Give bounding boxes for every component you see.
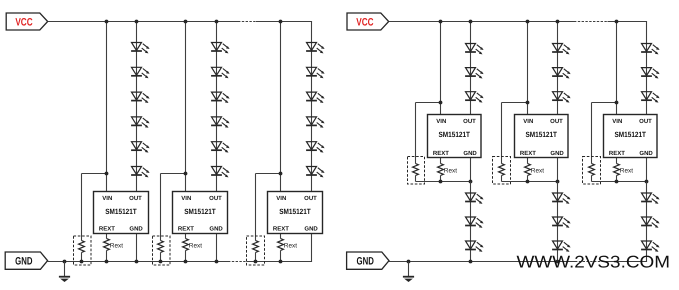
- watermark text WWW.2VS3.COM: [517, 252, 671, 271]
- LED D26: [552, 68, 571, 79]
- driver IC U6 SM15121T: [604, 115, 658, 158]
- LED D15: [306, 92, 325, 103]
- svg-text:REXT: REXT: [520, 150, 536, 157]
- svg-text:OUT: OUT: [639, 118, 652, 125]
- LED D21: [465, 92, 484, 103]
- wire: GND pin down module 4: [470, 158, 472, 182]
- junction: VIN at top rail: [279, 20, 283, 24]
- optional placement box (dashed) module 1: [74, 236, 92, 265]
- driver IC U2 SM15121T: [173, 192, 228, 234]
- wire: branch to optional Rext module 4: [416, 103, 441, 164]
- wire: GND pin to bottom rail module 3: [311, 234, 313, 262]
- optional placement box (dashed) module 3: [247, 236, 265, 265]
- junction: GND pin at bottom rail: [135, 260, 139, 264]
- wire: VIN feed module 6: [616, 22, 618, 115]
- LED D16: [306, 117, 325, 128]
- LED D13: [306, 43, 325, 54]
- wire: LED string column x=470.5: [470, 182, 472, 262]
- svg-text:VCC: VCC: [356, 16, 373, 28]
- svg-text:SM15121T: SM15121T: [526, 130, 558, 139]
- wire: left GND bottom rail: [48, 261, 312, 263]
- svg-text:REXT: REXT: [99, 226, 115, 233]
- svg-text:VIN: VIN: [102, 195, 112, 202]
- resistor Rext (optional) module 4: [413, 164, 419, 182]
- LED D10: [211, 117, 230, 128]
- LED D27: [552, 92, 571, 103]
- svg-text:GND: GND: [639, 150, 653, 157]
- resistor Rext (optional) module 6: [589, 164, 595, 182]
- junction: Rext at bottom rail: [184, 260, 188, 264]
- wire: LED string column x=136.5: [136, 22, 138, 192]
- junction: VIN at top rail: [105, 20, 109, 24]
- label Rext module 6: [620, 168, 633, 175]
- LED D1: [131, 43, 150, 54]
- LED D9: [211, 92, 230, 103]
- driver IC U4 SM15121T: [428, 115, 482, 158]
- junction: lower LED string at bottom rail: [469, 260, 473, 264]
- svg-text:WWW.2VS3.COM: WWW.2VS3.COM: [517, 252, 671, 271]
- junction: GND net: [645, 180, 649, 184]
- wire: GND pin to bottom rail module 2: [216, 234, 218, 262]
- svg-text:VIN: VIN: [612, 118, 622, 125]
- svg-text:Rext: Rext: [620, 168, 633, 175]
- junction: VIN at top rail: [615, 20, 619, 24]
- svg-text:GND: GND: [463, 150, 477, 157]
- driver IC U3 SM15121T: [268, 192, 323, 234]
- LED D19: [465, 44, 484, 55]
- svg-text:Rext: Rext: [531, 168, 544, 175]
- junction: Rext bottom: [526, 180, 530, 184]
- LED D24: [465, 241, 484, 252]
- junction: branch on VIN line: [184, 172, 188, 176]
- LED D34: [641, 193, 660, 204]
- wire: VIN feed module 3: [280, 22, 282, 192]
- wire: LED string column x=470.5: [470, 22, 472, 115]
- optional placement box (dashed) module 5: [493, 157, 511, 185]
- svg-text:OUT: OUT: [304, 195, 317, 202]
- wire: Rext net bottom link module 6: [592, 181, 647, 183]
- svg-text:OUT: OUT: [550, 118, 563, 125]
- wire: Rext net bottom link module 5: [502, 181, 558, 183]
- svg-text:GND: GND: [550, 150, 564, 157]
- ground symbol (left circuit): [59, 260, 70, 282]
- wire: LED string column x=311.5: [311, 22, 313, 192]
- svg-text:VIN: VIN: [436, 118, 446, 125]
- wire: branch to optional Rext module 1: [82, 174, 107, 241]
- label Rext module 1: [110, 243, 123, 250]
- junction: GND net: [556, 180, 560, 184]
- resistor Rext (optional) module 2: [158, 241, 164, 262]
- wire: VIN feed module 4: [440, 22, 442, 115]
- LED D14: [306, 67, 325, 78]
- svg-text:GND: GND: [209, 226, 223, 233]
- junction: optional Rext at bottom rail: [159, 260, 163, 264]
- wire: LED string column x=646.5: [646, 182, 648, 262]
- svg-text:GND: GND: [304, 226, 318, 233]
- svg-text:GND: GND: [357, 255, 374, 267]
- svg-text:SM15121T: SM15121T: [439, 130, 471, 139]
- LED D12: [211, 167, 230, 178]
- power tag VCC (left circuit): [6, 13, 48, 30]
- label Rext module 5: [531, 168, 544, 175]
- svg-text:OUT: OUT: [129, 195, 142, 202]
- wire: branch to optional Rext module 2: [161, 174, 186, 241]
- power tag GND (right circuit): [347, 252, 389, 269]
- wire: VIN feed module 1: [106, 22, 108, 192]
- label Rext module 2: [189, 243, 202, 250]
- junction: optional Rext at bottom rail: [80, 260, 84, 264]
- LED D35: [641, 217, 660, 228]
- svg-text:OUT: OUT: [209, 195, 222, 202]
- resistor Rext (optional) module 3: [253, 241, 259, 262]
- LED D8: [211, 67, 230, 78]
- wire: GND pin down module 5: [557, 158, 559, 182]
- svg-text:VIN: VIN: [276, 195, 286, 202]
- LED D22: [465, 193, 484, 204]
- junction: GND net: [469, 180, 473, 184]
- LED D28: [552, 193, 571, 204]
- LED D3: [131, 92, 150, 103]
- LED D5: [131, 142, 150, 153]
- svg-text:VCC: VCC: [15, 16, 32, 28]
- junction: Rext at bottom rail: [279, 260, 283, 264]
- LED D18: [306, 167, 325, 178]
- svg-text:Rext: Rext: [444, 168, 457, 175]
- junction: Rext bottom: [615, 180, 619, 184]
- LED D31: [641, 44, 660, 55]
- svg-text:SM15121T: SM15121T: [184, 207, 216, 216]
- svg-text:OUT: OUT: [463, 118, 476, 125]
- wire: branch to optional Rext module 6: [592, 103, 617, 164]
- wire: right GND bottom rail: [389, 261, 647, 263]
- svg-text:Rext: Rext: [284, 243, 297, 250]
- wire: VIN feed module 2: [185, 22, 187, 192]
- resistor Rext (optional) module 5: [499, 164, 505, 182]
- LED D36: [641, 241, 660, 252]
- resistor Rext module 1: [104, 234, 110, 262]
- svg-text:GND: GND: [129, 226, 143, 233]
- resistor Rext module 5: [525, 158, 531, 182]
- LED D23: [465, 217, 484, 228]
- label Rext module 3: [284, 243, 297, 250]
- LED D20: [465, 68, 484, 79]
- resistor Rext (optional) module 1: [79, 241, 85, 262]
- LED D11: [211, 142, 230, 153]
- junction: GND pin at bottom rail: [215, 260, 219, 264]
- optional placement box (dashed) module 4: [408, 157, 425, 185]
- junction: Rext bottom: [439, 180, 443, 184]
- optional placement box (dashed) module 2: [153, 236, 171, 265]
- resistor Rext module 3: [278, 234, 284, 262]
- junction: LED string at top rail: [556, 20, 560, 24]
- label Rext module 4: [444, 168, 457, 175]
- wire: GND pin to bottom rail module 1: [136, 234, 138, 262]
- junction: branch on VIN line: [526, 101, 530, 105]
- svg-text:SM15121T: SM15121T: [279, 207, 311, 216]
- resistor Rext module 2: [183, 234, 189, 262]
- wire: Rext net bottom link module 4: [416, 181, 471, 183]
- junction: Rext at bottom rail: [105, 260, 109, 264]
- svg-text:VIN: VIN: [523, 118, 533, 125]
- wire: branch to optional Rext module 3: [256, 174, 281, 241]
- LED D29: [552, 217, 571, 228]
- svg-text:VIN: VIN: [181, 195, 191, 202]
- wire: LED string column x=646.5: [646, 22, 648, 115]
- junction: branch on VIN line: [105, 172, 109, 176]
- wire: LED string column x=557.5: [557, 22, 559, 115]
- junction: VIN at top rail: [184, 20, 188, 24]
- optional placement box (dashed) module 6: [583, 157, 601, 185]
- wire: right VCC top rail: [389, 21, 647, 23]
- svg-text:GND: GND: [15, 255, 32, 267]
- LED D2: [131, 67, 150, 78]
- svg-text:REXT: REXT: [273, 226, 289, 233]
- LED D6: [131, 167, 150, 178]
- LED D33: [641, 92, 660, 103]
- wire: left VCC top rail: [48, 21, 312, 23]
- wire: branch to optional Rext module 5: [502, 103, 528, 164]
- wire: VIN feed module 5: [527, 22, 529, 115]
- svg-text:Rext: Rext: [189, 243, 202, 250]
- LED D25: [552, 44, 571, 55]
- junction: optional Rext at bottom rail: [254, 260, 258, 264]
- power tag VCC (right circuit): [347, 13, 389, 30]
- power tag GND (left circuit): [5, 252, 47, 269]
- svg-text:Rext: Rext: [110, 243, 123, 250]
- wire: LED string column x=557.5: [557, 182, 559, 262]
- junction: branch on VIN line: [279, 172, 283, 176]
- LED D7: [211, 43, 230, 54]
- junction: LED string at top rail: [215, 20, 219, 24]
- wire: GND pin down module 6: [646, 158, 648, 182]
- driver IC U5 SM15121T: [515, 115, 569, 158]
- svg-text:SM15121T: SM15121T: [615, 130, 647, 139]
- LED D4: [131, 117, 150, 128]
- driver IC U1 SM15121T: [94, 192, 149, 234]
- LED D30: [552, 241, 571, 252]
- junction: LED string at top rail: [469, 20, 473, 24]
- wire: LED string column x=216.5: [216, 22, 218, 192]
- svg-text:REXT: REXT: [178, 226, 194, 233]
- resistor Rext module 6: [614, 158, 620, 182]
- junction: VIN at top rail: [439, 20, 443, 24]
- junction: lower LED string at bottom rail: [556, 260, 560, 264]
- LED D32: [641, 68, 660, 79]
- junction: branch on VIN line: [615, 101, 619, 105]
- ground symbol (right circuit): [403, 260, 414, 282]
- svg-text:REXT: REXT: [609, 150, 625, 157]
- junction: VIN at top rail: [526, 20, 530, 24]
- svg-text:SM15121T: SM15121T: [105, 207, 137, 216]
- junction: branch on VIN line: [439, 101, 443, 105]
- junction: LED string at top rail: [135, 20, 139, 24]
- resistor Rext module 4: [438, 158, 444, 182]
- LED D17: [306, 142, 325, 153]
- svg-text:REXT: REXT: [433, 150, 449, 157]
